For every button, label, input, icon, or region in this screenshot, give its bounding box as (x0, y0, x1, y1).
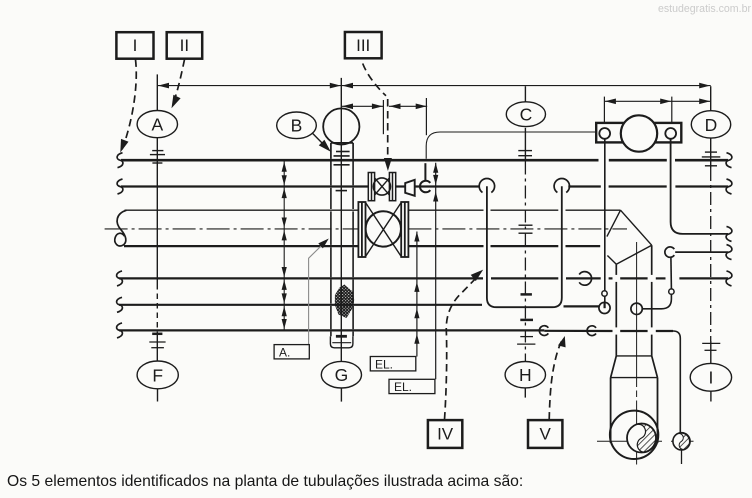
control valve body verticals x=331/353 (331, 162, 353, 337)
drain circle lower centerline stub (681, 450, 683, 464)
label box EL lower (389, 379, 435, 394)
pipe break P4 left (117, 271, 123, 286)
leader dashed from box IV (445, 275, 480, 420)
chute right vertical edge (651, 245, 653, 356)
gridline B-G x=341 (340, 78, 342, 402)
label box IV (428, 420, 462, 448)
wire pump discharge elbow to right break (671, 139, 728, 234)
gridline D-I x=710.7 (710, 86, 712, 401)
big valve on P3 right flange (401, 202, 408, 257)
leader dashed from box I (122, 60, 136, 150)
flange ticks on I line above ellipse (702, 343, 720, 350)
junction circle on suction at P5 stub (599, 302, 610, 313)
pipe break P5 left (117, 297, 123, 312)
pipe break P3 loop left (115, 210, 127, 246)
vessel body sides (611, 378, 658, 444)
leader solid from ellipse B to valve (312, 133, 328, 149)
callout ellipse C (506, 102, 545, 127)
flange ticks on D line at P1 (702, 152, 721, 166)
coupling C-circle 1 on P6 (539, 326, 548, 336)
coupling C-circle 2 on P6 (587, 326, 596, 336)
pipe break P1 left (117, 153, 123, 168)
coupling C-circle on discharge at y=252 (665, 247, 674, 257)
label box EL upper (370, 357, 416, 372)
svg-text:G: G (335, 365, 349, 385)
svg-text:Os 5 elementos identificados n: Os 5 elementos identificados na planta d… (7, 473, 523, 490)
svg-text:estudegratis.com.br: estudegratis.com.br (658, 3, 752, 15)
pump impeller circle (621, 115, 657, 151)
wire P6 right run elbow down to drain circle (673, 331, 680, 433)
pipe break drain right (726, 245, 732, 260)
gridline A-F x=157 (156, 74, 158, 401)
big valve on P3 left flange (358, 202, 365, 257)
gate valve on P2 left flange (368, 173, 395, 201)
callout ellipse I (690, 363, 731, 391)
drain target circle hatched (673, 433, 690, 450)
pump suction nozzle circle (599, 128, 610, 139)
label box II (167, 32, 203, 59)
svg-text:A.: A. (279, 345, 290, 359)
vessel target inner circle hatched (627, 423, 656, 452)
leader from box A. to pipe3 (309, 241, 327, 344)
svg-text:H: H (519, 365, 532, 385)
dimension line pump nozzles (604, 97, 710, 123)
svg-text:I: I (133, 36, 138, 55)
svg-text:A: A (151, 115, 163, 135)
pipe break P6 left (117, 323, 123, 338)
svg-text:B: B (291, 116, 303, 136)
svg-text:EL.: EL. (394, 380, 412, 394)
flange ticks on G line near valve (334, 152, 350, 191)
chute inner diagonal (607, 256, 616, 265)
vessel cone flange line (611, 377, 658, 379)
control valve B bonnet neck (331, 143, 353, 159)
drain funnel below P6 on G line (330, 336, 353, 348)
pump casing rectangle (596, 123, 681, 142)
coupling C-circle on P4 open left (579, 272, 591, 286)
wire drain elbow from small circle down-left into vessel circle (642, 294, 671, 309)
dimension line valve spacing (341, 98, 427, 135)
wire pipe P5 (119, 305, 599, 307)
vessel crosshair horizontal (597, 440, 662, 442)
pipe break P2 right (726, 179, 732, 194)
vessel centerline vertical (636, 242, 638, 465)
coupling C-circle on P2 at reducer outlet (420, 181, 430, 193)
label box I (116, 32, 153, 59)
wire pump discharge drop from C-circle to small circle (670, 257, 673, 289)
flange ticks on C line above P1 (518, 151, 532, 156)
gridline C-H x=525 (524, 86, 526, 397)
svg-text:V: V (540, 425, 552, 444)
elevation leader EL2 x=436 (435, 163, 437, 379)
flange ticks on F line below P6 (149, 334, 165, 348)
label box III (345, 32, 382, 58)
chute miter seam lower (616, 245, 651, 264)
wire pipe P3 centerline (105, 228, 627, 230)
svg-text:C: C (520, 105, 533, 125)
nozzle circle on P2 left of U-loop (479, 178, 494, 192)
chute left vertical edge (615, 264, 617, 356)
svg-text:F: F (152, 365, 163, 385)
svg-text:D: D (705, 115, 718, 135)
flange ticks on H line near P6 (517, 294, 535, 344)
wire pump suction stub below P1 to coupling (424, 163, 426, 181)
reducer on P2 (405, 180, 415, 196)
label box V (528, 420, 562, 448)
junction circle on vessel centerline drain (631, 303, 642, 314)
callout ellipse A (137, 111, 177, 138)
dimension chain between pipes x=284 (283, 160, 285, 330)
leader dashed from box II (173, 60, 185, 106)
drain circle crosshair horizontal (671, 440, 694, 442)
svg-text:III: III (356, 36, 370, 55)
small circle on suction line (602, 291, 607, 296)
callout ellipse H (505, 362, 545, 388)
flange ticks on C-H line at P3 centerline (519, 225, 533, 233)
wire pump suction riser from reducer C-circle up to pump (426, 132, 596, 159)
crosshatched blind on G line (335, 285, 354, 319)
callout ellipse B (277, 112, 317, 139)
callout ellipse D (691, 111, 730, 138)
control valve B actuator circle (323, 108, 359, 144)
dimension line top main (157, 85, 710, 87)
pipe break P1 right (726, 153, 732, 168)
nozzle circle on P2 right of U-loop (554, 178, 569, 192)
vessel transition cone (611, 356, 658, 378)
svg-text:EL.: EL. (375, 357, 393, 371)
wire U-loop seal below P2 (487, 186, 562, 307)
wire pump suction drop line x=605 (604, 139, 606, 308)
flange ticks on A line above P1 (150, 151, 165, 163)
callout ellipse F (137, 361, 178, 389)
leader dashed from box III (363, 64, 388, 167)
wire pipe P3 top edge (125, 209, 621, 211)
svg-text:II: II (180, 36, 189, 55)
wire pipe P1 (121, 159, 728, 162)
gate valve on P2 cross and circle (373, 178, 390, 195)
pump discharge nozzle circle (665, 128, 676, 139)
label box A. (274, 345, 309, 360)
chute outer diagonal (621, 210, 652, 245)
wire drain line y=252 to right break (675, 251, 728, 253)
pipe break discharge right (726, 226, 732, 241)
vessel outer circle (610, 411, 658, 459)
vessel neck flange line (616, 355, 651, 357)
svg-text:I: I (708, 368, 713, 388)
wire pipe P2 (121, 185, 728, 187)
pipe break P4 right (726, 271, 732, 286)
small circle on discharge drain line (669, 289, 674, 294)
svg-text:IV: IV (437, 425, 454, 444)
wire pipe P4 (119, 277, 728, 279)
chute miter seam upper (607, 210, 621, 236)
callout ellipse G (321, 361, 361, 388)
pipe break P2 left (117, 179, 123, 194)
big valve on P3 cross and circle (366, 203, 402, 257)
wire pipe P3 bottom edge (124, 245, 600, 247)
wire pipe P6 (119, 329, 673, 332)
elevation leader EL1 x=417 (416, 232, 418, 357)
leader dashed from box V (549, 340, 562, 420)
